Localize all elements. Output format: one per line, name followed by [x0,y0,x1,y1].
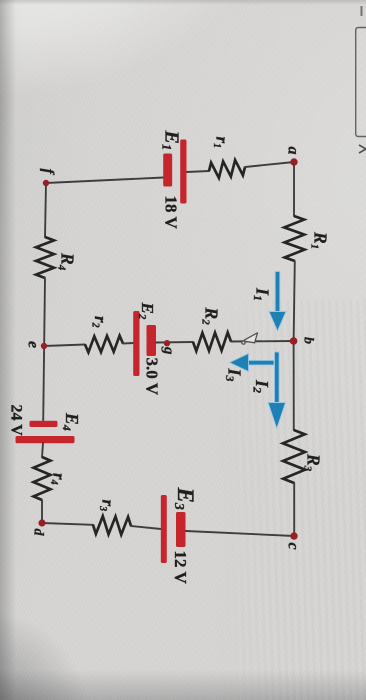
node a [290,158,297,165]
wire E1 to r1 [187,171,210,172]
node g [164,340,170,346]
resistor R4 [36,237,54,278]
wire E3 to c [186,531,294,536]
wire r3 to E3 [131,526,161,529]
small mark top right [361,6,363,16]
wire d to r3 [42,523,93,525]
node c [290,532,297,539]
textbook figure frame (partial box, top right) [356,28,366,137]
battery E1 negative plate (short) [163,154,172,187]
wire f to E1 [46,178,164,184]
battery E3 negative plate (short) [176,512,186,547]
wire r2 to E2 [123,342,134,345]
current arrow I3 [230,354,275,372]
wire e to r2 [44,345,85,347]
wire R4 to E4 [43,278,45,421]
resistor r4 [34,457,51,500]
wire E4 to r4 [42,443,43,457]
resistor r1 [209,160,245,178]
resistor r2 [85,336,123,353]
resistor R1 [284,216,304,261]
open arrow pointer on wire at b [242,333,258,344]
battery E3 positive plate (long) [161,495,167,563]
battery E2 negative plate (short) [147,325,157,356]
resistor R3 [283,430,305,483]
wire R1 to b [294,261,295,341]
battery E2 positive plate (long) [133,311,139,376]
resistor r3 [93,516,131,535]
wire R3 to c [293,483,295,533]
current arrow I2 [268,352,286,429]
battery E4 positive plate (long) [16,436,75,443]
node e [41,343,47,349]
resistor R2 [193,333,231,352]
node f [43,180,49,186]
battery E1 positive plate (long) [180,140,186,204]
battery E4 negative plate (short) [30,421,58,427]
wire a to R1 [293,162,295,216]
node d [38,519,45,526]
wire E2 to R2 via node g [156,341,193,344]
wire r1 to a [245,162,294,167]
node b [290,337,298,345]
wire r4 to d [41,500,43,523]
wire b to R3 [293,341,295,430]
current arrow I1 [269,272,286,332]
partial glyph right edge [359,145,366,153]
wire R2 to b [231,340,294,343]
wire f to R4 [45,183,46,237]
